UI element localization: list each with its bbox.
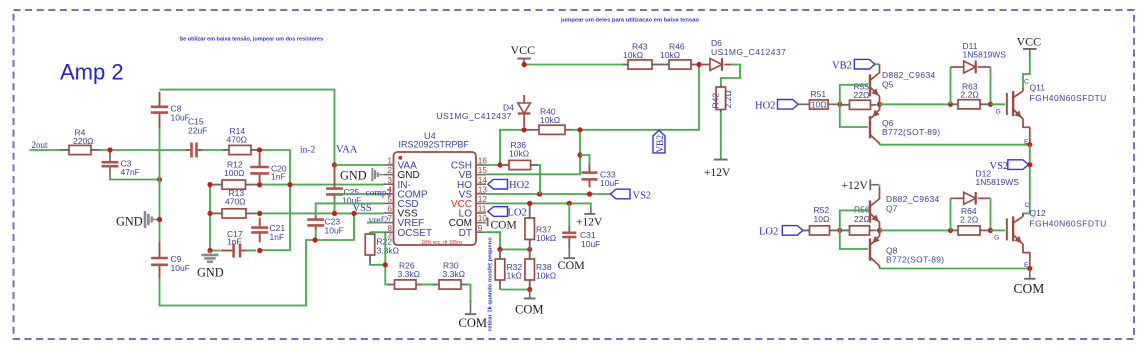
- resistor R43: [623, 64, 628, 66]
- transistor Q8: [869, 239, 871, 261]
- svg-text:COM: COM: [459, 316, 487, 330]
- junction VSS riser: [351, 211, 356, 216]
- wire VB to C33: [580, 155, 590, 165]
- flag VS2 right: [1008, 160, 1029, 170]
- svg-text:8: 8: [387, 223, 392, 233]
- resistor R32: [499, 249, 501, 259]
- svg-text:GND: GND: [197, 266, 224, 280]
- wire Q6 collector to VS2 node: [880, 144, 1030, 146]
- pin 16 CSH: [476, 164, 486, 166]
- svg-text:1: 1: [387, 156, 392, 166]
- flag LO2 at pin11: [488, 207, 508, 217]
- wire R32 bottom to R38 bottom: [500, 289, 530, 291]
- junction R56 emitters: [877, 228, 882, 233]
- diode D6: [699, 64, 710, 66]
- svg-text:10Ω: 10Ω: [811, 100, 827, 110]
- resistor R40: [526, 129, 539, 131]
- svg-text:Q7: Q7: [886, 204, 898, 214]
- junction R55 emitters: [877, 102, 882, 107]
- junction VS R36: [537, 191, 542, 196]
- capacitor C25: [334, 168, 336, 189]
- ground GND at input divider: [152, 219, 160, 221]
- svg-text:2.2Ω: 2.2Ω: [960, 215, 978, 225]
- svg-text:2: 2: [387, 165, 392, 175]
- wire VS row pin13: [486, 193, 611, 195]
- svg-text:Q5: Q5: [882, 80, 894, 90]
- transistor Q11 IGBT: [1023, 56, 1030, 89]
- svg-text:10kΩ: 10kΩ: [536, 271, 556, 281]
- transistor Q5: [875, 63, 880, 65]
- ground GND below C17: [209, 251, 211, 254]
- ground COM below C31: [568, 247, 570, 257]
- wire C3 bottom to GND rail: [110, 177, 160, 179]
- svg-text:1kΩ: 1kΩ: [507, 271, 522, 281]
- power +12V below R42: [720, 157, 722, 159]
- wire OCSET riser to R26 row: [385, 232, 391, 284]
- junction R14 C20: [257, 147, 262, 152]
- capacitor C20: [259, 153, 261, 167]
- transistor Q6: [869, 116, 871, 138]
- svg-text:VB2: VB2: [832, 60, 852, 71]
- wire R36 right to VS: [538, 165, 540, 194]
- junction VB node: [577, 152, 582, 157]
- svg-text:vref2: vref2: [369, 215, 389, 226]
- resistor R64: [952, 229, 958, 231]
- svg-text:22Ω: 22Ω: [854, 214, 870, 224]
- svg-text:HO2: HO2: [755, 101, 775, 112]
- capacitor C3: [109, 152, 111, 162]
- resistor R22: [369, 232, 371, 234]
- junction R37 top VCC row: [527, 201, 532, 206]
- wire R4 to C15: [100, 149, 186, 151]
- pin 9 DT: [476, 231, 486, 233]
- junction R37 R38 DT: [527, 247, 532, 252]
- vertical VAA rail with C8: [160, 90, 335, 165]
- resistor R4: [60, 149, 69, 151]
- wire Q7 base: [840, 210, 868, 230]
- wire OCSET pin8 to R22: [370, 231, 384, 233]
- svg-text:1N5819WS: 1N5819WS: [976, 177, 1020, 187]
- capacitor C15: [186, 149, 192, 151]
- power VCC at Q11: [1023, 48, 1037, 50]
- wire R30 to COM: [467, 285, 471, 303]
- svg-text:C: C: [1024, 79, 1029, 86]
- pin 3 IN-: [384, 183, 394, 185]
- svg-text:100Ω: 100Ω: [224, 168, 245, 178]
- pin 2 GND: [384, 174, 394, 176]
- svg-text:10kΩ: 10kΩ: [540, 115, 560, 125]
- wire C23 bottom: [315, 230, 317, 240]
- svg-text:13: 13: [478, 184, 488, 194]
- resistor R42: [720, 85, 722, 87]
- wire VAA to pin 1: [335, 164, 384, 166]
- junction at R4 output: [107, 147, 112, 152]
- resistor R52: [803, 229, 810, 231]
- junction C31 top: [567, 201, 572, 206]
- svg-text:22Ω: 22Ω: [854, 90, 870, 100]
- wire CSH pin16 to R36 and D4: [486, 130, 524, 165]
- junction R12 left on divider rail: [207, 182, 212, 187]
- svg-text:FGH40N60SFDTU: FGH40N60SFDTU: [1030, 219, 1107, 229]
- svg-text:+12V: +12V: [842, 180, 869, 192]
- svg-text:10uF: 10uF: [171, 263, 190, 273]
- svg-text:VS2: VS2: [633, 191, 652, 202]
- svg-text:HO2: HO2: [509, 180, 529, 191]
- svg-text:COM: COM: [515, 303, 543, 317]
- transistor Q12 IGBT: [1023, 213, 1030, 216]
- flag HO2 input: [778, 100, 799, 110]
- junction VS C33: [587, 191, 592, 196]
- wire R40 to VB riser and VB2 flag: [572, 65, 699, 130]
- svg-text:Amp 2: Amp 2: [60, 60, 124, 85]
- junction D11 left: [948, 102, 953, 107]
- junction VS2 flag: [1027, 162, 1032, 167]
- wire VCC pin12 row to +12V: [486, 203, 591, 209]
- diode D12 bypass: [950, 198, 952, 230]
- svg-text:5: 5: [387, 194, 392, 204]
- svg-text:Q12: Q12: [1030, 208, 1046, 218]
- junction R12 C20 IN-: [257, 182, 262, 187]
- wire C15 to R14: [202, 149, 224, 151]
- svg-text:1nF: 1nF: [271, 171, 286, 181]
- junction Q8 collector Q12 emitter: [1027, 266, 1032, 271]
- svg-text:Q11: Q11: [1030, 83, 1046, 93]
- resistor R38: [529, 249, 531, 259]
- svg-text:1N5819WS: 1N5819WS: [963, 50, 1007, 60]
- svg-text:GND: GND: [340, 169, 367, 183]
- svg-text:jumpear um deles para utilizac: jumpear um deles para utilizacao em baix…: [560, 17, 699, 23]
- resistor R55: [841, 104, 850, 106]
- junction R40 VB riser: [577, 127, 582, 132]
- svg-text:R51: R51: [811, 89, 827, 99]
- svg-text:1nF: 1nF: [227, 237, 242, 247]
- svg-text:47nF: 47nF: [121, 167, 140, 177]
- capacitor C9: [159, 242, 161, 258]
- svg-text:3.3kΩ: 3.3kΩ: [398, 269, 420, 279]
- power VCC left: [517, 58, 531, 60]
- junction R52 R56 bases: [837, 228, 842, 233]
- pin 5 CSD: [384, 202, 394, 204]
- svg-text:470Ω: 470Ω: [225, 197, 246, 207]
- wire Q5 base: [840, 85, 868, 105]
- svg-text:10Ω: 10Ω: [814, 214, 830, 224]
- flag VB2 at Q5: [854, 59, 875, 69]
- svg-text:LO2: LO2: [759, 227, 778, 238]
- svg-text:VS2: VS2: [990, 161, 1009, 172]
- svg-text:VB2: VB2: [656, 135, 666, 153]
- svg-text:10% vcc, dt 105ns: 10% vcc, dt 105ns: [422, 240, 463, 246]
- svg-text:6: 6: [387, 204, 392, 214]
- wire C25 bottom to VSS row: [334, 199, 336, 213]
- svg-text:COM: COM: [558, 258, 586, 272]
- pin 8 OCSET: [384, 231, 394, 233]
- svg-text:10: 10: [478, 213, 488, 223]
- svg-text:10uF: 10uF: [600, 178, 619, 188]
- junction GND rail: [157, 217, 162, 222]
- wire Q6 base: [840, 104, 868, 127]
- svg-text:LO2: LO2: [508, 208, 527, 219]
- svg-text:220Ω: 220Ω: [73, 136, 94, 146]
- resistor R30: [433, 284, 439, 286]
- flag VS2 on VS row: [610, 189, 630, 199]
- capacitor C33: [589, 165, 591, 173]
- svg-text:US1MG_C412437: US1MG_C412437: [437, 111, 512, 121]
- svg-text:G: G: [996, 109, 1001, 116]
- svg-text:10kΩ: 10kΩ: [509, 149, 529, 159]
- resistor R13: [211, 212, 222, 214]
- svg-text:10kΩ: 10kΩ: [623, 50, 643, 60]
- ground COM below R30: [470, 300, 472, 313]
- pin 15 VB: [476, 174, 486, 176]
- diode D4: [523, 95, 525, 103]
- junction R32 R38 COM: [527, 287, 532, 292]
- svg-text:GND: GND: [116, 214, 143, 228]
- resistor R51: [810, 100, 829, 109]
- svg-text:VAA: VAA: [336, 145, 358, 156]
- power +12V near C31: [590, 210, 592, 214]
- wire Q8 collector to COM node: [880, 268, 1030, 270]
- capacitor C21: [259, 218, 261, 228]
- svg-text:VCC: VCC: [1017, 35, 1042, 49]
- pin 7 VREF: [384, 222, 394, 224]
- wire VSS row: [256, 212, 384, 214]
- capacitor C23: [315, 216, 317, 220]
- wire emitters to R64: [880, 229, 951, 231]
- capacitor C8: [159, 92, 161, 107]
- resistor R36: [501, 164, 509, 166]
- wire IN- row to IC pin3: [258, 184, 384, 186]
- svg-text:FGH40N60SFDTU: FGH40N60SFDTU: [1030, 93, 1107, 103]
- svg-text:10kΩ: 10kΩ: [660, 50, 680, 60]
- resistor R46: [660, 64, 669, 66]
- svg-text:B772(SOT-89): B772(SOT-89): [886, 255, 944, 265]
- svg-text:US1MG_C412437: US1MG_C412437: [711, 47, 786, 57]
- wire DT row to R37 R38: [500, 248, 530, 250]
- wire C9 bottom rail to VSS riser: [160, 215, 355, 306]
- junction R46 D6: [696, 62, 701, 67]
- svg-text:2out: 2out: [32, 140, 49, 150]
- junction Q11 emitter: [1027, 142, 1032, 147]
- wire VS riser right: [1029, 145, 1031, 214]
- svg-text:11: 11: [478, 204, 487, 214]
- wire C17 row: [246, 250, 256, 252]
- wire VREF pin7 stub: [367, 222, 384, 224]
- resistor R12: [211, 184, 222, 186]
- ground COM below Q12: [1029, 269, 1031, 278]
- junction C17 left with GND: [207, 248, 212, 253]
- svg-text:COM: COM: [491, 219, 517, 231]
- junction R63 gate: [988, 102, 993, 107]
- wire gate Q11: [991, 103, 1006, 105]
- svg-text:VCC: VCC: [511, 43, 536, 57]
- svg-text:OCSET: OCSET: [398, 228, 432, 239]
- junction D4 cathode: [522, 127, 527, 132]
- wire HO2 to R51: [798, 103, 809, 105]
- transistor Q7: [879, 185, 881, 188]
- svg-text:D882_C9634: D882_C9634: [886, 194, 940, 204]
- svg-text:7: 7: [387, 213, 392, 223]
- resistor R63: [952, 103, 958, 105]
- wire R22 bottom elbow: [370, 263, 385, 265]
- junction R64 gate: [988, 228, 993, 233]
- junction C25 VSS: [332, 211, 337, 216]
- svg-text:in-2: in-2: [300, 146, 316, 156]
- junction D12 left: [948, 228, 953, 233]
- junction R13 left: [207, 211, 212, 216]
- junction VCC D4: [522, 62, 527, 67]
- svg-text:3.3kΩ: 3.3kΩ: [377, 246, 399, 256]
- junction C23 bottom rail: [312, 237, 317, 242]
- svg-text:Se utilizar em baixa tensão, j: Se utilizar em baixa tensão, jumpear um …: [180, 36, 324, 42]
- flag LO2 input: [782, 226, 803, 236]
- svg-text:retirar 1k quando mosfet peque: retirar 1k quando mosfet pequeno: [488, 237, 494, 331]
- wire DT pin9 down: [486, 232, 500, 249]
- svg-text:10uF: 10uF: [325, 226, 344, 236]
- wire R14 to in-2 corner down to IN- row: [257, 150, 290, 250]
- pin 11 LO: [476, 212, 486, 214]
- pin 4 COMP: [384, 193, 394, 195]
- junction C17 C21 bottom: [257, 248, 262, 253]
- ground COM below R38: [529, 290, 531, 298]
- pin 14 HO: [476, 183, 486, 185]
- svg-text:D882_C9634: D882_C9634: [882, 70, 936, 80]
- svg-text:4: 4: [387, 184, 392, 194]
- svg-text:COM: COM: [1014, 281, 1045, 296]
- junction R22 OCSET riser: [383, 262, 388, 267]
- svg-text:22uF: 22uF: [188, 126, 207, 136]
- svg-text:1nF: 1nF: [270, 232, 285, 242]
- wire divider rail R12 to C17: [209, 185, 211, 251]
- wire VB row pin15: [486, 130, 580, 174]
- capacitor C31: [568, 203, 570, 226]
- op-amp U4 IRS2092STRPBF body: [394, 152, 477, 245]
- svg-text:+12V: +12V: [704, 167, 731, 179]
- junction in-2 drop on IN- row: [287, 182, 292, 187]
- pin 13 VS: [476, 193, 486, 195]
- diode D11 bypass: [950, 67, 952, 104]
- pin 1 VAA: [384, 164, 394, 166]
- junction R51 R55 bases: [837, 102, 842, 107]
- pin 12 VCC: [476, 202, 486, 204]
- resistor R14: [223, 149, 229, 151]
- ground GND at IC pin2: [377, 174, 383, 176]
- wire gate Q12: [991, 229, 1006, 231]
- resistor R56: [841, 229, 850, 231]
- wire mid vertical through GND junction: [159, 128, 161, 242]
- svg-text:10kΩ: 10kΩ: [536, 233, 556, 243]
- svg-text:3: 3: [387, 175, 392, 185]
- svg-text:14: 14: [478, 175, 488, 185]
- svg-text:9: 9: [478, 223, 483, 233]
- svg-text:10uF: 10uF: [171, 113, 190, 123]
- svg-text:B772(SOT-89): B772(SOT-89): [882, 127, 940, 137]
- wire input to R4: [30, 149, 61, 151]
- svg-text:DT: DT: [459, 228, 472, 239]
- junction DT R32: [497, 247, 502, 252]
- flag VB2 vertical: [653, 130, 665, 153]
- svg-text:IRS2092STRPBF: IRS2092STRPBF: [399, 140, 470, 150]
- pin 6 VSS: [384, 212, 394, 214]
- wire emitters to R63: [880, 103, 951, 105]
- svg-text:2.2Ω: 2.2Ω: [723, 90, 733, 108]
- pin 10 COM: [476, 222, 486, 224]
- wire D6 to R42: [721, 65, 740, 86]
- junction VAA pin1: [332, 162, 337, 167]
- wire CSD pin5 to C23: [316, 203, 384, 216]
- wire R26 to R30: [422, 284, 435, 286]
- svg-text:2.2Ω: 2.2Ω: [961, 90, 979, 100]
- svg-text:VSS: VSS: [353, 203, 372, 214]
- svg-text:R42: R42: [711, 93, 721, 109]
- resistor R37: [529, 203, 531, 218]
- capacitor C17: [210, 250, 220, 252]
- svg-text:3.3kΩ: 3.3kΩ: [443, 269, 465, 279]
- junction CSH node: [497, 162, 502, 167]
- junction R13 right C21 top: [257, 211, 262, 216]
- svg-text:+12V: +12V: [576, 217, 603, 229]
- ground COM at pin10: [487, 218, 489, 227]
- svg-text:470Ω: 470Ω: [227, 135, 248, 145]
- wire Q8 base: [840, 230, 868, 249]
- wire R42 to +12V: [720, 112, 722, 157]
- svg-text:G: G: [994, 235, 999, 242]
- wire VCC to R43: [524, 64, 625, 66]
- svg-text:10uF: 10uF: [581, 239, 600, 249]
- wire LO2 to R52: [803, 229, 810, 231]
- flag HO2 at pin14: [488, 179, 508, 189]
- wire COMP pin4: [335, 193, 384, 195]
- resistor R26: [388, 284, 395, 286]
